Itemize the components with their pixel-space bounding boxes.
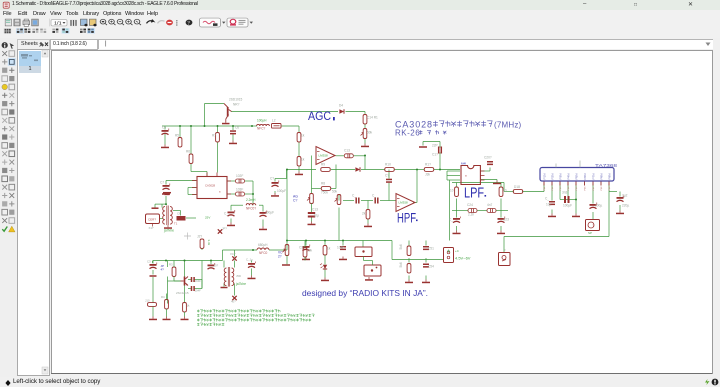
capacitor C38 electrolytic — [208, 263, 215, 269]
wire rail drop x=392 — [391, 240, 393, 259]
wire down to C23 — [500, 210, 502, 217]
ground bar GND26 — [282, 264, 290, 266]
capacitor C30 electrolytic — [617, 195, 624, 201]
ground GND1 — [161, 144, 169, 148]
junction ecap C28 — [575, 198, 577, 200]
svg-text:R5: R5 — [175, 133, 179, 137]
wire LPF right pin1 — [480, 170, 490, 172]
wire T1 left coil top stub — [161, 204, 163, 207]
toolbar row 1 — [0, 19, 720, 30]
diode D3 — [355, 167, 360, 171]
ground GND11 — [227, 222, 235, 226]
svg-text:C7: C7 — [160, 180, 164, 184]
svg-text:104F: 104F — [195, 288, 202, 292]
title bar — [0, 0, 720, 11]
speaker SP1 — [586, 219, 600, 230]
capacitor C27 — [549, 201, 555, 205]
svg-text:C24: C24 — [467, 203, 473, 207]
wire R32 to ground — [166, 309, 168, 317]
wire TA7368 pin5 drop — [575, 183, 577, 199]
wire C21 down to y=169 — [439, 152, 441, 169]
capacitor C28 electrolytic horizontal — [564, 196, 570, 203]
svg-text:C23: C23 — [503, 217, 509, 221]
ULP buttons — [200, 18, 221, 27]
annotation line3 kana — [197, 318, 311, 321]
resistor R26 — [323, 245, 327, 255]
capacitor C23 electrolytic — [498, 216, 505, 222]
svg-text:100µF: 100µF — [563, 203, 572, 207]
wire stub to resonator — [362, 240, 364, 246]
capacitor C4 electrolytic — [162, 128, 169, 134]
wire bracket y=141 — [423, 140, 440, 142]
ground GND30 — [149, 316, 157, 320]
wire C34 to ground — [425, 275, 427, 279]
wire LPF RC chain y=210 a — [452, 209, 468, 211]
transformer T1 — [163, 205, 173, 225]
wire R33 to ground — [152, 306, 154, 316]
svg-text:J2?: J2? — [197, 234, 202, 238]
wire stub to R28 — [408, 240, 410, 245]
resistor R24 — [513, 189, 523, 193]
potentiometer R30 AGC — [307, 193, 313, 203]
wire R16 to D3 — [331, 168, 355, 170]
wire x=153 down to R33 — [152, 277, 154, 303]
ground GND2 — [229, 140, 237, 144]
junction x=217.5 — [217, 125, 219, 127]
resistor R23 10k — [499, 187, 503, 197]
wire R28 to R29 — [408, 258, 410, 263]
wire x=217.5 to R7 — [217, 126, 219, 133]
origin cross — [184, 232, 191, 239]
svg-text:P$1: P$1 — [544, 185, 546, 190]
wire mixer chain left — [231, 204, 243, 206]
svg-text:1/1: 1/1 — [54, 21, 62, 26]
wire to Q2 collector — [184, 260, 186, 276]
wire rail to R31 — [173, 260, 175, 267]
capacitor C25 — [487, 208, 496, 212]
wire T2 primary bottom to gnd — [223, 283, 225, 286]
toolbar row 2 — [0, 30, 720, 38]
svg-text:2µ2: 2µ2 — [622, 193, 628, 197]
svg-text:10?: 10? — [214, 263, 219, 267]
svg-text:P$7: P$7 — [593, 185, 595, 190]
wire y=180 to CA3028 pin1 — [166, 179, 196, 181]
potentiometer R14 50k — [361, 128, 367, 138]
svg-text:2?: 2? — [278, 254, 282, 258]
svg-text:NFC0?: NFC0? — [246, 206, 256, 210]
inductor L2 2.2mH — [246, 203, 256, 205]
wire R25 to rail — [201, 248, 203, 250]
ground GND14 — [493, 180, 501, 184]
wire TA7368 pin2 drop to C27 — [551, 183, 553, 200]
schematic drawing — [51, 50, 713, 373]
svg-text:C_: C_ — [352, 193, 356, 197]
svg-text:10µ: 10µ — [546, 202, 552, 206]
supply bar VCC1 — [163, 191, 171, 193]
wire C19 to chain — [388, 182, 390, 200]
svg-text:3n3: 3n3 — [562, 190, 568, 194]
wire TA7368 pin4 drop — [567, 183, 569, 199]
svg-text:4n7: 4n7 — [487, 203, 493, 207]
svg-text:104F: 104F — [195, 279, 202, 283]
resistor R33 — [148, 302, 157, 306]
svg-text:CER?: CER? — [148, 217, 156, 221]
svg-text:2SC1815: 2SC1815 — [176, 291, 189, 295]
svg-text:D18: D18 — [514, 185, 520, 189]
wire L2 right — [259, 204, 263, 206]
wire Q2 emitter down — [184, 285, 186, 302]
wire down to R24 — [503, 182, 505, 191]
wire C40 to ground — [251, 268, 253, 275]
ground GND31 — [163, 316, 171, 320]
junction x=253 y=249.5 — [252, 249, 254, 251]
svg-text:1k: 1k — [327, 246, 331, 250]
svg-text:750k: 750k — [321, 190, 328, 194]
wire VCC rail upper-left y=125.5 — [162, 125, 253, 127]
svg-text:P7N: P7N — [591, 173, 595, 179]
capacitor C22 electrolytic — [453, 216, 460, 222]
wire rail y=259 to battery — [392, 258, 444, 260]
IC U5 pin names — [542, 173, 611, 179]
wire x=191 down to R6 — [190, 126, 192, 154]
diode D2 — [339, 109, 344, 113]
inductor L1 100uH — [257, 124, 270, 126]
svg-text:C_1µ: C_1µ — [246, 257, 253, 261]
wire R17 to HPF output node — [395, 168, 418, 170]
wire to CA3028 top pin — [191, 170, 207, 172]
svg-text:ja7khe: ja7khe — [163, 228, 174, 232]
wire R22a to chain — [456, 198, 458, 210]
wire gnd bar to T1 — [165, 196, 167, 204]
junction lower rail c — [210, 259, 212, 261]
svg-text:D4: D4 — [339, 103, 343, 107]
wire Y1 to Y2 a — [363, 256, 365, 260]
wire y=236 to jack — [504, 235, 609, 237]
wire CA3028 pin2 stub — [188, 186, 196, 188]
capacitor C32 — [340, 246, 346, 250]
svg-text:+C: +C — [455, 249, 460, 253]
svg-text:SP: SP — [588, 231, 592, 235]
wire corner down to y=169 — [364, 155, 366, 169]
capacitor C6 — [230, 130, 236, 134]
op-amp U3 LM358 HPF — [396, 193, 415, 211]
svg-text:R6: R6 — [186, 149, 190, 153]
IC U5 top stubs — [556, 160, 580, 167]
wire T1 sec link — [173, 209, 181, 211]
resistor R6 — [189, 154, 193, 164]
ground bar GND8b — [165, 193, 170, 195]
svg-text:22P: 22P — [432, 143, 438, 147]
svg-text:M4f: M4f — [461, 161, 466, 165]
ferrite bead FB1 — [272, 123, 282, 128]
wire C30 to ground — [619, 205, 621, 211]
svg-text:R8: R8 — [321, 181, 325, 185]
wire to 2SD1015 base — [205, 102, 225, 104]
wire C33 to C34 — [425, 258, 427, 263]
status bar — [0, 377, 720, 387]
svg-text:J5D: J5D — [236, 274, 241, 278]
wire Q2 base link — [168, 280, 181, 282]
resistor R28 10k — [407, 246, 411, 256]
transistor Q1 2SD1015 — [222, 103, 232, 124]
connector X1 CER — [146, 214, 160, 227]
wire C8 to CA3028 pin — [186, 217, 196, 219]
resistor R15 750k — [321, 186, 331, 190]
svg-text:P3N: P3N — [558, 173, 562, 179]
wire R20 to ground — [367, 219, 369, 224]
svg-text:4.5V~6V: 4.5V~6V — [455, 255, 471, 260]
wire to C30 column — [609, 190, 617, 192]
svg-text:C54: C54 — [428, 264, 434, 268]
svg-text:P9N: P9N — [607, 173, 611, 179]
canvas — [51, 50, 713, 374]
wire R11 to R12 — [298, 142, 300, 157]
wire to R24 — [504, 190, 514, 192]
wire pot R30 to C13 — [311, 203, 313, 212]
wire x=202 vertical — [201, 260, 203, 288]
wire stub to C31 — [305, 240, 307, 245]
wire corner down to R13 — [364, 111, 366, 114]
wire down to jack J2 — [503, 236, 505, 252]
junction x=180 — [179, 125, 181, 127]
svg-text:102F: 102F — [236, 174, 243, 178]
wire LPF top link y=182 — [452, 181, 504, 183]
wire after bead to R column — [281, 125, 299, 127]
ground GND32 — [181, 316, 189, 320]
left palette — [0, 38, 17, 377]
menu bar — [0, 10, 720, 19]
junction x=253 mixer — [252, 193, 254, 195]
resistor R16 — [321, 167, 331, 171]
wire x=253 down to mixer chain — [252, 181, 254, 205]
junction x=287 y=240 — [286, 239, 288, 241]
wire R27 bottom stub — [304, 257, 306, 261]
capacitor C39a — [191, 277, 195, 282]
wire stub gnd — [496, 179, 498, 180]
ground GND18 — [548, 213, 556, 217]
wire CA3028 pin3 stub — [188, 193, 196, 195]
ground GND6 — [364, 223, 372, 227]
wire Y1 to Y2 c — [372, 260, 374, 265]
IC U5 pins bottom — [544, 181, 609, 185]
wire x=389 to C19 — [388, 169, 390, 178]
svg-text:NR?: NR? — [233, 102, 240, 106]
wire stub to red gnd GND7 — [422, 141, 424, 145]
annotation line4 kana — [197, 323, 224, 326]
resistor R20 — [366, 209, 370, 219]
svg-text:C_: C_ — [545, 196, 549, 200]
svg-text:NFC?: NFC? — [257, 126, 266, 130]
junction T1 top — [165, 203, 167, 205]
wire C39 join — [201, 279, 203, 288]
ground GND24 — [405, 279, 413, 283]
ground GND23 — [365, 277, 373, 281]
svg-text:R1?: R1? — [425, 162, 431, 166]
wire lower-left rail y=260 — [153, 259, 223, 261]
wire x=165 down to C4 — [164, 126, 166, 130]
svg-text:VC?: VC? — [230, 252, 236, 256]
svg-text:220µ: 220µ — [622, 203, 629, 207]
wire R23 top stub — [500, 182, 502, 186]
resistor R12 — [297, 156, 301, 166]
row 3: sheets tab, coords, command line — [0, 38, 720, 49]
wire x=299 to R11 — [298, 126, 300, 133]
op-amp U2 LM358 — [316, 146, 335, 164]
ground GND19 — [616, 210, 624, 214]
wire x=311.5 AGC pot column — [311, 155, 313, 193]
svg-text:100µ: 100µ — [595, 203, 602, 207]
capacitor C11 electrolytic — [228, 210, 235, 216]
junction x=440 y=169 — [439, 168, 441, 170]
resistor R5 — [178, 137, 182, 147]
LED D5 arrows — [320, 263, 323, 268]
svg-text:C14 R1: C14 R1 — [367, 115, 378, 119]
svg-text:2k: 2k — [362, 211, 366, 215]
svg-text:P$6: P$6 — [585, 185, 587, 190]
wire TA7368 pin1 drop — [543, 183, 545, 191]
wire C29 to speaker — [592, 212, 594, 220]
svg-text:R3: R3 — [169, 262, 173, 266]
svg-text:680µH: 680µH — [258, 243, 268, 247]
svg-text:100µF: 100µF — [277, 189, 286, 193]
jack J2 — [499, 252, 511, 265]
svg-text:J: J — [504, 248, 506, 252]
text LPF period — [485, 195, 487, 197]
wire U3 output — [413, 201, 417, 203]
svg-text:C_: C_ — [372, 193, 376, 197]
svg-text:RK-26: RK-26 — [395, 128, 420, 137]
svg-text:C?: C? — [385, 173, 389, 177]
capacitor C29 electrolytic — [590, 202, 597, 208]
svg-text:AGC: AGC — [308, 109, 331, 123]
IC U1 CA3028 box — [197, 176, 227, 198]
wire to L1 — [252, 125, 257, 127]
svg-text:100µF: 100µF — [265, 210, 274, 214]
capacitor C24 — [468, 208, 477, 212]
svg-text:C4: C4 — [162, 125, 166, 129]
ground GND21 — [321, 277, 329, 281]
wire T2 right top with X2 — [234, 250, 236, 257]
IC U5 TA7368 box — [540, 167, 614, 181]
capacitor C18 — [374, 197, 378, 203]
svg-text:J3k: J3k — [425, 172, 430, 176]
wire stub to C14 — [274, 178, 276, 181]
svg-text:C51: C51 — [428, 246, 434, 250]
net flag X2 VC — [232, 256, 236, 260]
svg-text:50k: 50k — [367, 130, 373, 134]
transformer T2 — [224, 267, 234, 287]
svg-text:C?: C? — [270, 176, 274, 180]
wire down to C7 — [165, 180, 167, 184]
ground GND12 — [259, 226, 267, 230]
wire C4 to ground — [164, 134, 166, 145]
svg-text:C6: C6 — [235, 125, 239, 129]
resistor R29 10k — [407, 263, 411, 273]
wire ecap C28 link y=199 — [560, 198, 576, 200]
ground GND4 — [361, 143, 369, 147]
wire down to C12 — [262, 205, 264, 211]
wire C17 to C18 — [361, 199, 373, 201]
resistor R34 — [183, 302, 187, 312]
ground bar GND9 — [152, 207, 159, 209]
text HPF period — [416, 219, 418, 221]
junction x=417 — [416, 168, 418, 170]
capacitor C39b — [191, 286, 195, 291]
wire C14 to gnd — [274, 191, 276, 194]
svg-text:P$8: P$8 — [601, 185, 603, 190]
ground GND10 — [164, 225, 172, 229]
svg-text:2SD1015: 2SD1015 — [229, 97, 243, 101]
svg-text:1k: 1k — [187, 303, 191, 307]
wire LED D5 to ground — [324, 269, 326, 277]
wire C15 to corner x=365 — [353, 154, 365, 156]
svg-text:C20?: C20? — [484, 155, 492, 159]
wire R26 to LED D5 — [324, 255, 326, 265]
wire C9a to x=253 — [245, 180, 253, 182]
svg-text:R9: R9 — [321, 162, 325, 166]
wire C36 to gnd — [152, 270, 154, 275]
svg-text:10µ: 10µ — [314, 213, 320, 217]
wire X2 to T2 — [234, 260, 236, 267]
wire stub to C40 — [251, 260, 253, 262]
wire down to C22 — [456, 210, 458, 217]
svg-text:a: a — [465, 173, 467, 177]
wire CA3028 top pin stub — [206, 171, 208, 176]
svg-text:C?: C? — [293, 198, 297, 202]
wire R19 to LPF filter input — [434, 168, 460, 170]
junction x=343 rail — [342, 239, 344, 241]
capacitor C40 electrolytic — [248, 261, 255, 267]
svg-text:4?: 4? — [161, 267, 165, 271]
wire down to ground GND15 — [575, 199, 577, 213]
svg-text:5k6: 5k6 — [399, 244, 403, 249]
capacitor C12 electrolytic — [260, 210, 267, 216]
ground GND16 — [453, 230, 461, 234]
capacitor C15 — [344, 153, 353, 157]
IC U5 pin labels — [544, 185, 611, 190]
resistor R31 — [172, 267, 176, 277]
wire C12 to ground — [262, 219, 264, 226]
wire stub to C32 — [342, 240, 344, 245]
svg-text:(7MHz): (7MHz) — [494, 120, 522, 129]
junction x=191 — [190, 125, 192, 127]
svg-text:C3: C3 — [147, 259, 151, 263]
wire R12 to ground — [298, 166, 300, 172]
wire R7 to CA3028 top pin — [217, 142, 219, 173]
potentiometer R18 — [335, 194, 341, 204]
wire LPF right pin3 to ground — [480, 178, 497, 180]
wire C30 stub — [619, 191, 621, 196]
wire T1 sec to C8 — [180, 210, 182, 215]
svg-text:P8N: P8N — [599, 173, 603, 179]
capacitor C9b — [236, 192, 245, 196]
svg-text:P$2: P$2 — [552, 185, 554, 190]
resistor R32 — [165, 299, 169, 309]
svg-text:103F: 103F — [236, 187, 243, 191]
wire stub to bar — [154, 204, 156, 207]
capacitor C17 — [355, 197, 359, 203]
wire down to C11 — [230, 205, 232, 210]
wire VC1 to ground bar — [286, 255, 288, 264]
IC U4 pins right — [481, 171, 485, 180]
svg-text:R10: R10 — [385, 162, 391, 166]
resistor R27 10k — [303, 247, 307, 257]
capacitor C7 electrolytic — [163, 183, 170, 189]
svg-text:50k: 50k — [332, 189, 338, 193]
svg-text:104F: 104F — [337, 245, 344, 249]
wire T2 right bottom to X3 — [234, 283, 236, 295]
wire CA3028 out1 to C9a — [227, 180, 235, 182]
